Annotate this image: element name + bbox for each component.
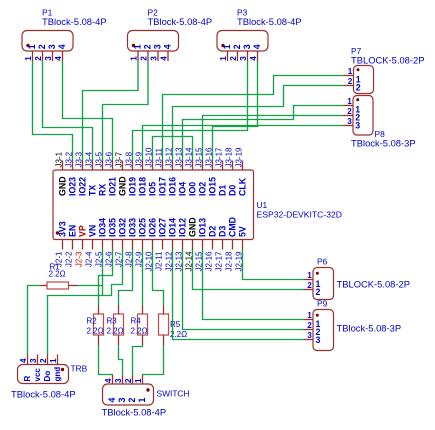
wire U1 J2-9 to R4 top (142, 250, 144, 306)
svg-text:R2: R2 (87, 317, 98, 326)
resistor R5 2.2ohm (159, 314, 169, 335)
U1 top pin number J3-5 (95, 151, 104, 167)
svg-text:2: 2 (39, 358, 48, 363)
svg-text:J2-4: J2-4 (85, 251, 94, 267)
svg-text:TBlock-5.08-4P: TBlock-5.08-4P (42, 16, 107, 27)
P8 pin 1 stub (343, 105, 353, 107)
R5 top lead (163, 306, 165, 315)
U1 bottom pin name IO33 (128, 218, 138, 237)
R1 right lead (69, 285, 78, 287)
U1 bottom pin name D3 (218, 226, 228, 237)
P3 pin 1 stub (227, 51, 229, 61)
P2 pin 2 number (142, 44, 152, 49)
P3 pin 2 stub (237, 51, 239, 61)
U1 top pin J3-8 stub (132, 161, 134, 171)
svg-text:TBlock-5.08-4P: TBlock-5.08-4P (148, 16, 213, 27)
P1 pin 3 number (47, 44, 57, 49)
svg-text:3V3: 3V3 (58, 221, 68, 237)
svg-text:IO25: IO25 (138, 218, 148, 237)
wire U1 J2-13 to P9.2 (183, 250, 304, 330)
svg-text:TBlock-5.08-3P: TBlock-5.08-3P (337, 323, 402, 334)
U1 bottom pin name VP (78, 225, 88, 237)
IC U1 ESP32-DEVKITC-32D body (53, 170, 254, 240)
U1 bottom pin name IO25 (138, 218, 148, 237)
svg-text:IO2: IO2 (198, 182, 208, 196)
svg-text:1: 1 (27, 44, 37, 49)
svg-text:IO27: IO27 (158, 218, 168, 237)
svg-text:J3-1: J3-1 (55, 151, 64, 167)
svg-text:1: 1 (348, 67, 353, 76)
U1 top pin number J3-12 (165, 147, 174, 168)
P8 pin 3 stub (343, 125, 353, 127)
U1 bottom pin name IO27 (158, 218, 168, 237)
P2 pin 1 stub (137, 51, 139, 61)
wire R4 bottom to SWITCH.2 (133, 345, 143, 376)
svg-text:J2-2: J2-2 (65, 251, 74, 267)
U1 bottom pin number J2-14 (185, 251, 194, 272)
U1 top pin number J3-3 (75, 151, 84, 167)
U1 bottom pin J2-6 stub (112, 240, 114, 250)
U1 top pin name IO0 (188, 182, 198, 196)
svg-text:P6: P6 (317, 257, 328, 267)
terminal block P2 TBlock-5.08-4P (128, 31, 179, 52)
terminal block SWITCH TBlock-5.08-4P (103, 384, 154, 405)
R4 bottom lead (142, 335, 144, 345)
svg-text:2: 2 (316, 287, 321, 297)
svg-text:3: 3 (44, 56, 53, 61)
TRB pin 3 stub (37, 355, 39, 365)
U1 bottom pin J2-3 stub (82, 240, 84, 250)
R3 bottom lead (118, 335, 120, 345)
svg-text:R4: R4 (131, 317, 142, 326)
U1 bottom pin number J2-11 (155, 251, 164, 271)
svg-text:4: 4 (104, 378, 113, 383)
svg-text:1: 1 (137, 398, 147, 403)
svg-text:GND: GND (188, 217, 198, 237)
P9 pin 2 stub (304, 329, 314, 331)
U1 bottom pin J2-15 stub (202, 240, 204, 250)
R1 left lead (41, 285, 48, 287)
U1 bottom pin J2-8 stub (132, 240, 134, 250)
U1 bottom pin number J2-12 (165, 251, 174, 272)
svg-text:1: 1 (219, 56, 228, 61)
wire P7.2 to U1 J3-12 (173, 86, 344, 161)
U1 bottom pin number J2-7 (115, 251, 124, 267)
U1 top pin number J3-16 (205, 147, 214, 168)
U1 bottom pin name IO32 (118, 218, 128, 237)
svg-text:3: 3 (355, 121, 360, 131)
U1 bottom pin name CMD (228, 217, 238, 237)
svg-text:D3: D3 (218, 226, 228, 237)
U1 bottom pin name IO12 (178, 218, 188, 237)
U1 bottom pin J2-2 stub (72, 240, 74, 250)
U1 bottom pin J2-17 stub (222, 240, 224, 250)
U1 top pin J3-10 stub (152, 161, 154, 171)
U1 top pin name IO2 (198, 182, 208, 196)
U1 top pin J3-3 stub (82, 161, 84, 171)
U1 top pin number J3-7 (115, 151, 124, 167)
U1 bottom pin J2-10 stub (152, 240, 154, 250)
svg-text:IO19: IO19 (128, 177, 138, 196)
U1 top pin number J3-4 (85, 151, 94, 167)
svg-text:TX: TX (88, 185, 98, 196)
wire P1.1 to U1 J3-2 (33, 61, 73, 161)
wire R5 bottom to SWITCH.1 (143, 345, 164, 376)
U1 bottom pin number J2-15 (195, 251, 204, 272)
wire U1 J2-12 to P9.3 (173, 250, 304, 340)
U1 bottom pin J2-18 stub (232, 240, 234, 250)
svg-text:2: 2 (356, 83, 361, 93)
svg-text:1: 1 (132, 44, 142, 49)
U1 top pin J3-2 stub (72, 161, 74, 171)
svg-text:1: 1 (24, 56, 33, 61)
wire U1 J2-6 to R2 top (99, 250, 113, 306)
wire U1 J2-7 to TRB.2 (48, 250, 123, 355)
U1 top pin number J3-19 (235, 147, 244, 168)
svg-text:vcc: vcc (33, 368, 42, 382)
svg-text:IO21: IO21 (108, 177, 118, 196)
U1 bottom pin number J2-9 (135, 251, 144, 267)
svg-text:TBlock-5.08-4P: TBlock-5.08-4P (102, 407, 167, 418)
U1 top pin J3-14 stub (192, 161, 194, 171)
terminal block P3 TBlock-5.08-4P (217, 31, 268, 52)
wire U1 J3-10 to J3-14 (153, 137, 193, 161)
U1 bottom pin name EN (68, 225, 78, 237)
svg-text:CLK: CLK (238, 177, 248, 196)
svg-text:U1: U1 (257, 200, 268, 210)
wire P1.2 to U1 J3-4 (43, 61, 93, 161)
P6 pin 1 stub (304, 279, 314, 281)
TRB pin 2 stub (47, 355, 49, 365)
U1 top pin J3-18 stub (232, 161, 234, 171)
U1 bottom pin number J2-3 (75, 251, 84, 267)
U1 top pin J3-5 stub (102, 161, 104, 171)
SWITCH pin 3 number (114, 378, 123, 383)
U1 top pin J3-16 stub (212, 161, 214, 171)
U1 bottom pin number J2-2 (65, 251, 74, 267)
wire P3.4 to U1 J3-16 (213, 61, 258, 161)
U1 bottom pin J2-14 stub (192, 240, 194, 250)
wire P2.2 to U1 J3-5 (103, 61, 149, 161)
P2 pin 3 number (152, 44, 162, 49)
svg-text:3: 3 (152, 44, 162, 49)
svg-text:J2-11: J2-11 (155, 251, 164, 271)
U1 top pin name IO17 (158, 177, 168, 196)
wire P8.2 to U1 J3-15 (203, 116, 344, 161)
svg-text:gnd: gnd (53, 367, 62, 382)
U1 top pin J3-1 stub (62, 161, 64, 171)
U1 bottom pin J2-12 stub (172, 240, 174, 250)
resistor R3 2.2ohm (114, 314, 124, 335)
terminal block P8 TBlock-5.08-3P (353, 96, 373, 136)
wire R1 right to node at J2-5 (78, 285, 103, 287)
U1 top pin number J3-9 (135, 151, 144, 167)
svg-text:1: 1 (134, 378, 143, 383)
U1 top pin name IO5 (148, 182, 158, 196)
U1 bottom pin name GND (188, 217, 198, 237)
svg-text:CMD: CMD (228, 217, 238, 237)
svg-text:IO22: IO22 (78, 177, 88, 196)
U1 top pin J3-13 stub (182, 161, 184, 171)
svg-text:2: 2 (142, 44, 152, 49)
U1 bottom pin name IO35 (108, 218, 118, 237)
P3 pin 1 number (222, 44, 232, 49)
U1 bottom pin J2-19 stub (242, 240, 244, 250)
wire R3 bottom to SWITCH.3 (119, 345, 123, 376)
U1 bottom pin number J2-17 (215, 251, 224, 272)
U1 top pin name GND (118, 176, 128, 196)
svg-text:2: 2 (307, 321, 312, 330)
svg-text:4: 4 (252, 44, 262, 49)
P2 pin 1 number (132, 44, 142, 49)
svg-text:2.2Ω: 2.2Ω (131, 327, 148, 336)
P1 pin 1 number (27, 44, 37, 49)
svg-text:IO15: IO15 (208, 177, 218, 196)
U1 bottom pin number J2-13 (175, 251, 184, 272)
U1 top pin name IO16 (168, 177, 178, 196)
svg-text:3: 3 (316, 335, 321, 345)
svg-text:2: 2 (229, 56, 238, 61)
wire U1 J2-15 to P9.1 (203, 250, 304, 320)
wire R1 left to TRB.4 (28, 286, 41, 355)
U1 top pin name RX (98, 184, 108, 196)
svg-text:IO17: IO17 (158, 177, 168, 196)
svg-text:2: 2 (307, 281, 312, 290)
svg-text:3: 3 (149, 56, 158, 61)
svg-text:TBlock-5.08-4P: TBlock-5.08-4P (237, 16, 302, 27)
R3 top lead (118, 306, 120, 315)
svg-text:4: 4 (107, 398, 117, 403)
svg-text:3: 3 (114, 378, 123, 383)
svg-text:GND: GND (118, 176, 128, 196)
wire U1 J2-8 to R3 top (119, 250, 133, 306)
svg-text:D1: D1 (218, 185, 228, 196)
svg-text:GND: GND (58, 176, 68, 196)
svg-text:Do: Do (43, 371, 52, 382)
svg-text:J2-16: J2-16 (205, 251, 214, 272)
svg-text:1: 1 (347, 97, 352, 106)
resistor R4 2.2ohm (138, 314, 148, 335)
TRB pin name Do (43, 371, 52, 382)
svg-text:1: 1 (307, 311, 312, 320)
SWITCH pin 2 number (124, 378, 133, 383)
U1 bottom pin name IO13 (198, 218, 208, 237)
terminal block P7 TBLOCK-5.08-2P (354, 66, 374, 94)
TRB pin 4 stub (27, 355, 29, 365)
svg-text:IO18: IO18 (138, 177, 148, 196)
U1 bottom pin number J2-5 (95, 251, 104, 267)
U1 bottom pin name D2 (208, 226, 218, 237)
P3 pin 2 number (232, 44, 242, 49)
svg-text:J3-17: J3-17 (215, 147, 224, 168)
svg-text:3: 3 (307, 331, 312, 340)
svg-text:2: 2 (232, 44, 242, 49)
U1 top pin name IO4 (178, 182, 188, 196)
svg-text:3: 3 (117, 398, 127, 403)
R2 bottom lead (98, 335, 100, 345)
U1 top pin name IO19 (128, 177, 138, 196)
svg-text:4: 4 (249, 56, 258, 61)
TRB pin name vcc (33, 368, 42, 382)
svg-text:RX: RX (98, 184, 108, 196)
svg-text:1: 1 (49, 358, 58, 363)
svg-text:IO26: IO26 (148, 218, 158, 237)
terminal block P9 TBlock-5.08-3P (313, 310, 334, 351)
svg-text:VN: VN (88, 225, 98, 237)
svg-text:R3: R3 (107, 317, 118, 326)
wire U1 J2-14 to P6.2 (193, 250, 304, 290)
P3 pin 4 stub (257, 51, 259, 61)
svg-text:2.2Ω: 2.2Ω (87, 327, 104, 336)
P1 pin 4 stub (62, 51, 64, 61)
U1 bottom pin J2-13 stub (182, 240, 184, 250)
svg-text:J2-17: J2-17 (215, 251, 224, 272)
P7 pin 1 stub (344, 75, 354, 77)
wire P8.3 to U1 J3-9 (143, 126, 344, 161)
svg-text:IO32: IO32 (118, 218, 128, 237)
U1 top pin name IO21 (108, 177, 118, 196)
svg-text:TBlock-5.08-3P: TBlock-5.08-3P (351, 138, 416, 149)
svg-text:2: 2 (347, 107, 352, 116)
U1 bottom pin J2-1 stub (62, 240, 64, 250)
P9 pin 3 stub (304, 339, 314, 341)
U1 top pin name CLK (238, 177, 248, 196)
U1 top pin J3-6 stub (112, 161, 114, 171)
svg-text:SWITCH: SWITCH (157, 389, 190, 399)
svg-text:P9: P9 (317, 299, 328, 309)
U1 top pin number J3-8 (125, 151, 134, 167)
P6 pin 2 stub (304, 289, 314, 291)
resistor R1 (47, 282, 69, 289)
P1 pin 1 stub (32, 51, 34, 61)
svg-text:J2-3: J2-3 (75, 251, 84, 267)
svg-text:IO23: IO23 (68, 177, 78, 196)
svg-text:J3-19: J3-19 (235, 147, 244, 168)
P9 pin 1 stub (304, 319, 314, 321)
P1 pin 3 stub (52, 51, 54, 61)
U1 bottom pin name IO26 (148, 218, 158, 237)
wire P8.1 to U1 J3-13 (183, 106, 344, 161)
U1 top pin number J3-11 (155, 148, 164, 168)
U1 top pin number J3-14 (185, 147, 194, 168)
TRB pin 4 number (19, 358, 28, 363)
P2 pin 2 stub (147, 51, 149, 61)
svg-text:IO33: IO33 (128, 218, 138, 237)
wire P7.1 to U1 J3-11 (163, 76, 344, 161)
svg-text:3: 3 (29, 358, 38, 363)
svg-text:2: 2 (124, 378, 133, 383)
U1 bottom pin J2-16 stub (212, 240, 214, 250)
U1 top pin number J3-18 (225, 147, 234, 168)
TRB pin 3 number (29, 358, 38, 363)
svg-text:TBlock-5.08-4P: TBlock-5.08-4P (11, 389, 76, 400)
TRB pin 1 stub (57, 355, 59, 365)
svg-text:4: 4 (159, 56, 168, 61)
U1 top pin name IO15 (208, 177, 218, 196)
svg-text:4: 4 (162, 44, 172, 49)
SWITCH pin 1 number (134, 378, 143, 383)
svg-text:3: 3 (347, 117, 352, 126)
U1 bottom pin number J2-10 (145, 251, 154, 272)
P3 pin 3 stub (247, 51, 249, 61)
U1 bottom pin number J2-8 (125, 251, 134, 267)
svg-text:1: 1 (222, 44, 232, 49)
P2 pin 4 stub (167, 51, 169, 61)
svg-text:IO12: IO12 (178, 218, 188, 237)
SWITCH pin 1 stub (142, 376, 144, 385)
svg-text:J3-7: J3-7 (115, 151, 124, 167)
TRB pin 1 number (49, 358, 58, 363)
U1 bottom pin J2-7 stub (122, 240, 124, 250)
svg-text:2.2Ω: 2.2Ω (107, 327, 124, 336)
svg-text:J3-18: J3-18 (225, 147, 234, 168)
svg-text:3: 3 (242, 44, 252, 49)
U1 top pin name TX (88, 185, 98, 196)
U1 top pin J3-17 stub (222, 161, 224, 171)
svg-text:IO14: IO14 (168, 218, 178, 237)
resistor R2 2.2ohm (94, 314, 104, 335)
R4 top lead (142, 306, 144, 315)
svg-text:5V: 5V (238, 226, 248, 237)
U1 bottom pin name IO34 (98, 218, 108, 237)
U1 top pin J3-15 stub (202, 161, 204, 171)
U1 top pin number J3-6 (105, 151, 114, 167)
svg-text:R: R (23, 376, 32, 382)
U1 top pin name IO18 (138, 177, 148, 196)
terminal block TRB TBlock-5.08-4P (18, 365, 69, 384)
wire P2.1 to U1 J3-3 (83, 61, 139, 161)
svg-text:TBLOCK-5.08-2P: TBLOCK-5.08-2P (351, 55, 424, 66)
svg-text:D2: D2 (208, 226, 218, 237)
svg-text:IO35: IO35 (108, 218, 118, 237)
svg-text:J2-18: J2-18 (225, 251, 234, 272)
U1 bottom pin number J2-1 (55, 251, 64, 267)
R2 top lead (98, 306, 100, 315)
U1 top pin number J3-17 (215, 147, 224, 168)
U1 top pin J3-4 stub (92, 161, 94, 171)
svg-text:R5: R5 (170, 320, 181, 329)
U1 bottom pin number J2-19 (235, 251, 244, 272)
svg-text:4: 4 (57, 44, 67, 49)
U1 bottom pin number J2-16 (205, 251, 214, 272)
U1 top pin number J3-10 (145, 147, 154, 168)
terminal block P6 TBLOCK-5.08-2P (313, 268, 334, 300)
P2 pin 3 stub (157, 51, 159, 61)
TRB pin 2 number (39, 358, 48, 363)
wire P3.3 to U1 J3-8 (133, 61, 248, 161)
TRB pin name gnd (53, 367, 62, 382)
U1 bottom pin J2-11 stub (162, 240, 164, 250)
U1 bottom pin J2-4 stub (92, 240, 94, 250)
P2 pin 4 number (162, 44, 172, 49)
svg-text:D0: D0 (228, 185, 238, 196)
svg-text:2: 2 (127, 398, 137, 403)
U1 top pin J3-11 stub (162, 161, 164, 171)
U1 top pin number J3-1 (55, 151, 64, 167)
SWITCH pin 4 number (104, 378, 113, 383)
svg-text:IO0: IO0 (188, 182, 198, 196)
wire R2 bottom to SWITCH.4 (99, 345, 113, 376)
svg-text:IO34: IO34 (98, 218, 108, 237)
svg-text:3: 3 (47, 44, 57, 49)
svg-text:2: 2 (34, 56, 43, 61)
svg-text:2: 2 (37, 44, 47, 49)
U1 top pin J3-7 stub (122, 161, 124, 171)
P1 pin 2 number (37, 44, 47, 49)
svg-text:EN: EN (68, 225, 78, 237)
SWITCH pin 3 stub (122, 376, 124, 385)
U1 bottom pin name 3V3 (58, 221, 68, 237)
